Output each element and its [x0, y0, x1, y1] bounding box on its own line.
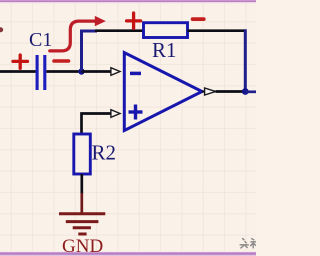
red polarity minus at R1 right — [193, 17, 204, 21]
top border line — [0, 0, 256, 4]
capacitor C1 — [37, 55, 45, 90]
wire noninverting input — [82, 114, 112, 135]
red arrow tip at left edge — [0, 27, 3, 32]
bottom border line — [0, 251, 256, 256]
wire node A feedback up — [82, 31, 98, 71]
pin arrow noninverting input — [111, 110, 120, 118]
node A junction dot — [78, 68, 84, 74]
node B junction dot — [242, 88, 249, 95]
wire node A to inverting input — [82, 70, 112, 73]
watermark toutiao — [240, 238, 256, 248]
wire R1 to right corner — [188, 29, 246, 32]
op-amp U1 — [124, 53, 202, 131]
svg-text:R2: R2 — [92, 140, 117, 164]
pin arrow output — [205, 88, 216, 95]
op-amp plus symbol — [129, 105, 143, 120]
ground stub wire — [80, 193, 83, 213]
red polarity plus at R1 left — [127, 13, 141, 28]
red polarity minus at C1 right — [54, 59, 69, 63]
red current flow arrow — [50, 16, 106, 51]
wire input to C1 — [0, 70, 36, 73]
resistor R2 — [74, 134, 91, 174]
svg-text:R1: R1 — [152, 38, 177, 62]
svg-text:GND: GND — [62, 236, 103, 256]
op-amp minus symbol — [130, 72, 141, 76]
svg-text:C1: C1 — [29, 29, 52, 51]
resistor R1 — [144, 23, 188, 38]
pin arrow inverting input — [111, 68, 120, 76]
wire feedback to R1 — [95, 29, 144, 32]
wire R2 to ground — [80, 174, 83, 194]
ground GND symbol — [59, 214, 105, 234]
red polarity plus at C1 left — [13, 55, 28, 68]
wire output to node B — [216, 90, 246, 93]
wire right vertical feedback — [244, 31, 246, 92]
wire op-amp output — [202, 90, 215, 92]
wire C1 to node A — [46, 70, 82, 73]
wire output to right edge — [245, 90, 256, 93]
